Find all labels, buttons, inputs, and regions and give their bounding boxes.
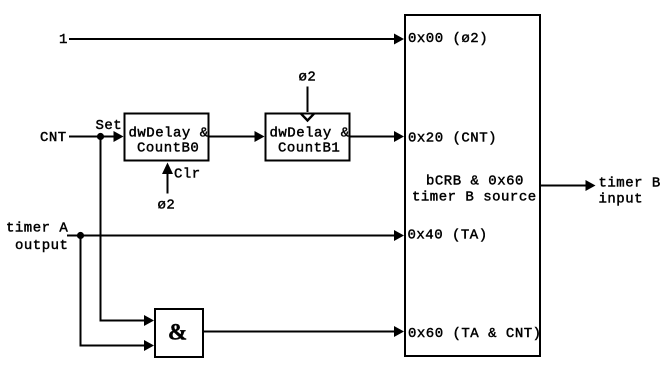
svg-text:dwDelay &: dwDelay &: [270, 126, 350, 142]
arrowhead into U1 pin 0x60: [394, 326, 404, 337]
svg-text:0x40 (TA): 0x40 (TA): [408, 228, 488, 244]
svg-text:Set: Set: [96, 118, 123, 134]
arrowhead V notch into U3 top: [301, 113, 315, 120]
arrowhead up into U2 Clr: [162, 163, 173, 175]
block U1 bCRB timer B source selector: [405, 15, 540, 356]
wire constant-1 to U1 pin 0x00: [69, 38, 395, 40]
svg-text:CountB1: CountB1: [278, 141, 340, 157]
wire junction to U2 Set input: [101, 136, 115, 138]
svg-text:ø2: ø2: [158, 198, 176, 214]
block U2 dwDelay & CountB0: [125, 114, 209, 161]
gate U4 AND: [155, 309, 203, 357]
svg-text:dwDelay &: dwDelay &: [129, 126, 209, 142]
svg-text:0x00 (ø2): 0x00 (ø2): [408, 31, 488, 47]
svg-text:CNT: CNT: [40, 130, 67, 146]
svg-text:ø2: ø2: [299, 70, 317, 86]
svg-text:&: &: [168, 320, 187, 345]
svg-text:timer B source: timer B source: [412, 190, 537, 206]
arrowhead into U1 pin 0x20: [394, 131, 404, 142]
wire CNT junction down to AND gate top input: [101, 137, 145, 321]
arrowhead into U3: [255, 131, 265, 142]
svg-text:timer B: timer B: [599, 176, 661, 192]
arrowhead into U1 pin 0x00: [394, 34, 404, 45]
svg-text:timer A: timer A: [6, 221, 68, 237]
wire U1 output to timer B input: [540, 185, 586, 187]
wire ø2 clock to U3 top: [307, 87, 309, 113]
arrowhead into AND gate bottom input: [144, 340, 154, 351]
svg-text:input: input: [599, 192, 644, 208]
wire AND output to U1 pin 0x60: [202, 331, 394, 333]
junction timer A node: [77, 232, 84, 239]
junction CNT node: [97, 133, 104, 140]
block U3 dwDelay & CountB1: [266, 114, 350, 161]
wire U2 output to U3 input: [209, 136, 255, 138]
wire timer A output to U1 pin 0x40: [67, 235, 394, 237]
wire CNT to junction: [69, 136, 101, 138]
svg-text:bCRB & 0x60: bCRB & 0x60: [426, 174, 524, 190]
svg-text:0x60 (TA & CNT): 0x60 (TA & CNT): [408, 326, 542, 342]
wire U3 output to U1 pin 0x20: [350, 136, 395, 138]
svg-text:output: output: [15, 238, 68, 254]
svg-text:0x20 (CNT): 0x20 (CNT): [408, 131, 497, 147]
wire timer A junction down to AND gate bottom input: [81, 236, 145, 346]
svg-text:1: 1: [59, 32, 68, 48]
arrowhead into U2 Set: [114, 131, 124, 142]
svg-text:CountB0: CountB0: [137, 141, 199, 157]
arrowhead timer B input: [586, 180, 596, 191]
svg-text:Clr: Clr: [174, 167, 201, 183]
arrowhead into AND gate top input: [144, 315, 154, 326]
wire ø2 clock to U2 Clr: [167, 172, 169, 194]
arrowhead into U1 pin 0x40: [394, 230, 404, 241]
